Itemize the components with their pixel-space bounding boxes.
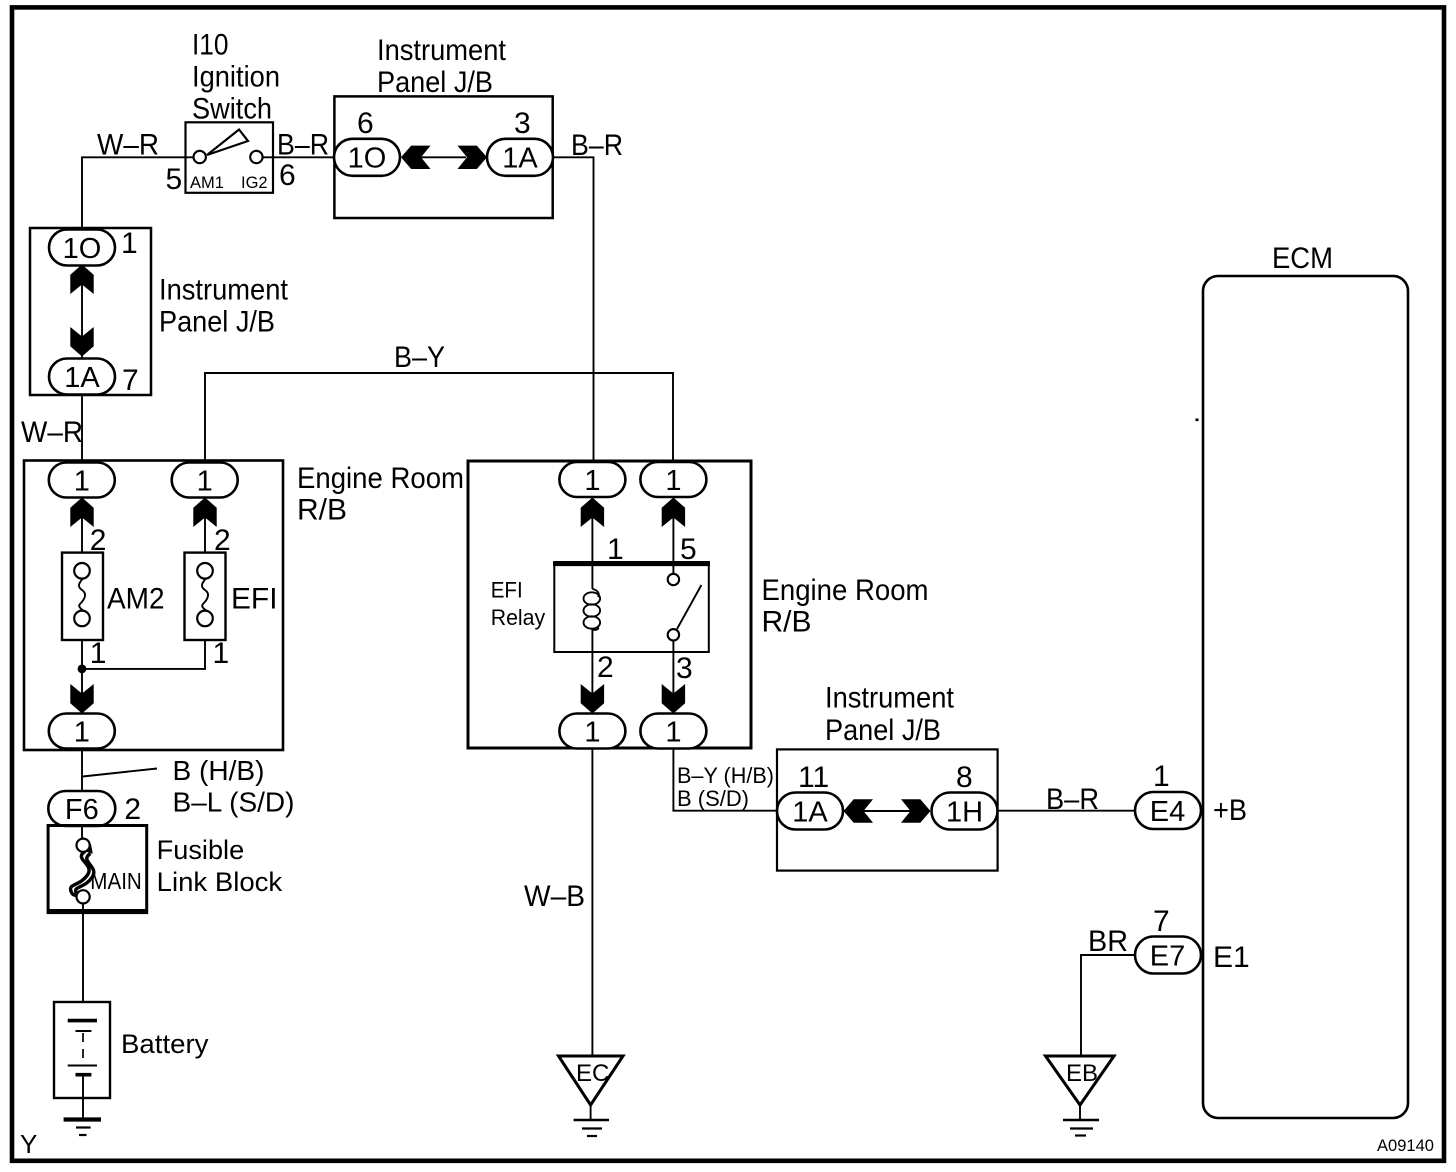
svg-text:1: 1 [1153,760,1170,793]
svg-text:AM1: AM1 [190,174,224,192]
svg-text:ECM: ECM [1272,242,1333,275]
switch contact AM1 [194,151,206,163]
connector 1 (top left) [559,462,625,497]
svg-text:Panel J/B: Panel J/B [159,306,275,339]
svg-text:B (H/B): B (H/B) [173,755,265,786]
svg-text:11: 11 [798,761,829,794]
svg-text:EFI: EFI [231,583,278,616]
svg-text:7: 7 [122,364,139,397]
wire into block [81,826,83,840]
arrow left [844,799,874,822]
ground EB triangle [1046,1056,1115,1105]
svg-text:Fusible: Fusible [157,835,245,865]
svg-text:8: 8 [956,761,973,794]
relay coil [592,589,598,597]
svg-text:3: 3 [676,652,693,685]
wire B-R to ECM [998,810,1135,812]
annotation leader line [83,769,157,777]
svg-text:1: 1 [121,227,138,260]
arrow down to outlet [70,684,93,714]
svg-text:+B: +B [1213,794,1247,827]
svg-text:Ignition: Ignition [192,61,280,94]
svg-text:Link Block: Link Block [157,867,283,897]
svg-text:E7: E7 [1150,941,1185,973]
wire W-R to ignition switch [82,157,196,231]
connector 1 (bottom left) [559,714,625,749]
svg-text:1: 1 [74,466,90,498]
arrow up EFI [193,498,216,528]
svg-text:IG2: IG2 [241,174,268,192]
svg-text:Engine Room: Engine Room [297,462,464,495]
connector E7 pin 7 [1135,937,1201,974]
svg-text:Engine Room: Engine Room [762,574,929,607]
svg-text:B–R: B–R [571,129,623,162]
relay coil branch wire [591,496,593,589]
Instrument Panel J/B (bottom) box [777,749,998,870]
svg-text:EB: EB [1066,1060,1098,1087]
svg-text:W–R: W–R [21,416,83,449]
svg-text:B–L (S/D): B–L (S/D) [173,787,295,818]
svg-text:1H: 1H [946,797,983,829]
wire B-Y [205,373,673,462]
connector 1 (top left) [49,463,115,498]
connector 1A [487,139,553,176]
arrow down [70,327,93,357]
svg-text:Battery: Battery [121,1029,209,1059]
Instrument Panel J/B (top) box [334,96,552,218]
connector 1O [334,139,400,176]
svg-text:Panel J/B: Panel J/B [825,714,941,747]
svg-text:2: 2 [124,793,141,826]
wire to F6 [81,749,83,793]
svg-text:EC: EC [576,1060,609,1087]
svg-text:3: 3 [514,107,531,140]
svg-text:1A: 1A [502,143,538,175]
svg-text:Relay: Relay [491,605,546,630]
wire W-R down to engine room R/B [81,394,83,462]
connector 1A [777,793,843,830]
arrow up [70,265,93,295]
ECM box [1203,276,1408,1118]
svg-text:R/B: R/B [762,605,812,638]
svg-text:5: 5 [166,163,183,196]
internal wire [81,263,83,360]
wire B-R switch to J/B [263,156,335,158]
connector E4 pin 1 [1135,792,1201,829]
svg-text:MAIN: MAIN [90,868,142,894]
arrow up AM2 [70,498,93,528]
svg-text:R/B: R/B [297,494,347,527]
svg-text:1A: 1A [792,797,828,829]
svg-text:1O: 1O [63,233,102,265]
wire BR to ground EB [1081,955,1135,1056]
EFI branch wire [204,496,206,565]
svg-text:Instrument: Instrument [159,274,289,307]
svg-text:1: 1 [584,717,600,749]
arrow right [901,799,931,822]
svg-text:AM2: AM2 [107,583,165,616]
connector 1 (bottom) [49,714,115,749]
Engine Room R/B (middle) box [468,461,751,748]
svg-text:Panel J/B: Panel J/B [377,66,493,99]
switch contact IG2 [250,151,262,163]
connector F6 [48,791,115,826]
svg-text:B–R: B–R [277,129,329,162]
wire W-B to ground EC [591,749,593,1057]
svg-text:1: 1 [197,466,213,498]
svg-text:A09140: A09140 [1377,1136,1434,1155]
svg-text:1: 1 [213,637,230,670]
svg-text:6: 6 [357,107,374,140]
switch lever [207,130,248,156]
svg-text:F6: F6 [65,794,99,826]
junction node [78,665,87,674]
relay switch contacts [677,585,701,629]
svg-text:1O: 1O [348,143,387,175]
Fusible Link Block box [48,826,147,913]
junction line between connectors [421,156,466,158]
connector 1 (bottom right) [640,714,706,749]
svg-text:1: 1 [74,717,90,749]
stray tick [1196,419,1199,422]
svg-text:W–B: W–B [524,880,585,913]
wire B-Y(H/B) to instrument panel J/B [673,749,778,811]
svg-text:B–Y: B–Y [394,341,445,374]
svg-text:Instrument: Instrument [377,34,507,67]
svg-text:2: 2 [597,651,614,684]
svg-text:1: 1 [584,465,600,497]
battery ground [64,1117,101,1121]
svg-text:Switch: Switch [192,93,272,126]
svg-text:I10: I10 [192,29,229,62]
svg-text:B (S/D): B (S/D) [677,786,749,811]
connector 1O pin 1 [49,230,115,266]
Engine Room R/B (left) box [24,461,283,751]
svg-text:7: 7 [1153,905,1170,938]
relay switch branch wire [672,496,674,574]
AM2 branch wire [81,496,83,565]
svg-text:Instrument: Instrument [825,682,955,715]
svg-text:EFI: EFI [491,578,523,603]
ignition switch box I10 [186,122,274,193]
svg-text:B–Y (H/B): B–Y (H/B) [677,763,774,788]
svg-text:6: 6 [279,159,296,192]
svg-text:1: 1 [665,717,681,749]
svg-text:E4: E4 [1150,796,1185,828]
connector 1H [932,793,998,830]
connector 1A pin 7 [49,359,115,395]
fuse AM2 [62,553,103,640]
wire to battery [82,903,84,1021]
EFI relay box [554,562,709,652]
arrows up [581,498,604,528]
ground EC triangle [559,1056,624,1105]
svg-text:W–R: W–R [97,129,159,162]
svg-text:E1: E1 [1213,941,1250,974]
Instrument Panel J/B (left) box [30,228,151,395]
junction line [863,810,911,812]
svg-text:1: 1 [90,637,107,670]
arrow right [458,146,488,169]
svg-text:1A: 1A [64,362,100,394]
MAIN fusible link squiggle [71,852,90,899]
connector 1 (top right) [640,462,706,497]
svg-text:BR: BR [1088,925,1128,958]
wire B-R from J/B down to relay block [553,157,594,462]
arrow left [401,146,431,169]
battery [54,1002,110,1098]
arrows down [581,684,604,714]
connector 1 (top right) [172,463,238,498]
fuse EFI [185,553,226,640]
svg-text:B–R: B–R [1046,783,1099,816]
svg-text:Y: Y [20,1129,37,1159]
svg-text:1: 1 [665,465,681,497]
